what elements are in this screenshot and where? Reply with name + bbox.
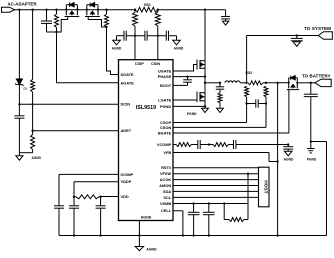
svg-text:RST#: RST#	[161, 165, 172, 170]
svg-text:DCIN: DCIN	[121, 102, 131, 107]
svg-text:AMON: AMON	[159, 183, 171, 188]
svg-text:TO SYSTEM: TO SYSTEM	[304, 26, 331, 31]
svg-text:CSON: CSON	[160, 125, 171, 130]
svg-text:ISL9519: ISL9519	[136, 105, 156, 111]
svg-text:VSMB: VSMB	[160, 201, 171, 206]
svg-text:VFB: VFB	[163, 150, 171, 155]
svg-text:PGND: PGND	[307, 158, 317, 162]
svg-text:ADET: ADET	[121, 128, 132, 133]
svg-text:SGATE: SGATE	[121, 72, 135, 77]
svg-text:ACOK: ACOK	[160, 177, 172, 182]
svg-text:CELL: CELL	[161, 208, 172, 213]
svg-text:SCL: SCL	[163, 195, 171, 200]
svg-text:VFSW: VFSW	[160, 171, 172, 176]
svg-text:TO BATTERY: TO BATTERY	[302, 74, 331, 79]
svg-text:AGATE: AGATE	[121, 80, 135, 85]
svg-text:VDD: VDD	[121, 194, 129, 199]
svg-text:AGND: AGND	[112, 46, 122, 50]
svg-text:CSIN: CSIN	[151, 62, 160, 66]
svg-text:PGND: PGND	[187, 112, 197, 116]
svg-text:CSIP: CSIP	[135, 62, 144, 66]
svg-text:BGATE: BGATE	[158, 130, 172, 135]
svg-text:AGND: AGND	[174, 46, 184, 50]
svg-text:RS1: RS1	[144, 3, 151, 7]
svg-text:UGATE: UGATE	[158, 68, 172, 73]
svg-text:VDDP: VDDP	[121, 179, 132, 184]
svg-text:AGND: AGND	[284, 158, 294, 162]
svg-text:PGND: PGND	[160, 104, 171, 109]
svg-text:AGND: AGND	[32, 156, 42, 160]
svg-text:D1: D1	[24, 86, 28, 90]
svg-text:ICOMP: ICOMP	[121, 172, 134, 177]
svg-text:BOOT: BOOT	[160, 83, 172, 88]
svg-text:LGATE: LGATE	[158, 97, 171, 102]
svg-text:AC-ADAPTER: AC-ADAPTER	[7, 1, 37, 6]
svg-text:HOST: HOST	[263, 180, 269, 193]
svg-text:AGND: AGND	[146, 248, 157, 252]
svg-text:SDA: SDA	[163, 189, 171, 194]
svg-text:VCOMP: VCOMP	[157, 142, 172, 147]
svg-text:PHASE: PHASE	[158, 74, 172, 79]
svg-text:AGND: AGND	[141, 215, 152, 219]
